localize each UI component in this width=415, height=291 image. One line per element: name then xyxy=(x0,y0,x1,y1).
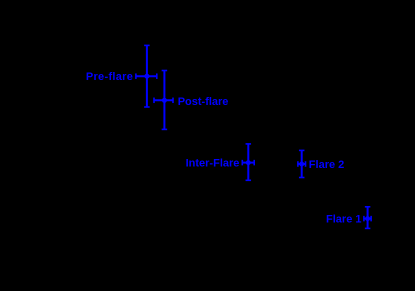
svg-text:Inter-Flare: Inter-Flare xyxy=(186,158,240,170)
svg-text:Flare 2: Flare 2 xyxy=(309,159,344,171)
svg-text:Post-flare: Post-flare xyxy=(178,96,229,108)
svg-text:Pre-flare: Pre-flare xyxy=(86,71,133,83)
svg-text:Flare 1: Flare 1 xyxy=(326,213,361,225)
